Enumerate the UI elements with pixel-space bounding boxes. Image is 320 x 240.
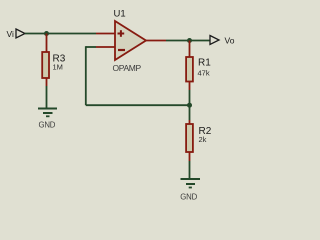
- pin R1 top: [189, 41, 191, 58]
- pin R3 top: [46, 34, 48, 53]
- pin opamp - input: [96, 46, 115, 48]
- svg-text:R1: R1: [198, 58, 211, 69]
- junction node at Vi/R3: [44, 31, 49, 36]
- wire R3 to ground: [46, 86, 48, 108]
- svg-text:OPAMP: OPAMP: [113, 63, 142, 73]
- svg-text:GND: GND: [180, 192, 197, 201]
- pin R1 bottom: [189, 82, 191, 91]
- ground right: [181, 179, 201, 188]
- ground left: [38, 109, 57, 117]
- svg-text:Vo: Vo: [225, 36, 235, 46]
- wire feedback horizontal: [86, 104, 190, 106]
- pin R2 top: [189, 120, 191, 124]
- resistor R2: [186, 124, 193, 152]
- node Vo terminal: [210, 36, 219, 45]
- pin opamp + input: [96, 33, 115, 35]
- svg-text:Vi: Vi: [7, 29, 15, 39]
- wire Vi to opamp + input: [25, 33, 96, 35]
- svg-text:1M: 1M: [53, 63, 63, 72]
- svg-text:2k: 2k: [199, 135, 207, 144]
- minus mark: [118, 49, 125, 51]
- op-amp U1: [115, 21, 146, 60]
- node Vi terminal: [16, 29, 25, 38]
- svg-text:U1: U1: [114, 9, 126, 20]
- pin R2 bottom: [189, 152, 191, 161]
- wire feedback to - input: [86, 46, 96, 48]
- plus mark: [118, 33, 125, 35]
- junction node R1/R2/feedback: [187, 103, 192, 108]
- wire R2 to ground: [189, 161, 191, 178]
- resistor R3: [42, 52, 49, 78]
- junction node output/R1: [187, 38, 192, 43]
- svg-text:47k: 47k: [198, 69, 210, 78]
- svg-text:GND: GND: [39, 121, 56, 130]
- wire output to Vo: [166, 40, 210, 42]
- pin R3 bottom: [46, 78, 48, 86]
- resistor R1: [186, 57, 193, 82]
- wire feedback vertical: [85, 46, 87, 105]
- wire R1 to junction: [189, 90, 191, 105]
- wire junction to R2: [189, 105, 191, 120]
- pin opamp output: [145, 40, 166, 42]
